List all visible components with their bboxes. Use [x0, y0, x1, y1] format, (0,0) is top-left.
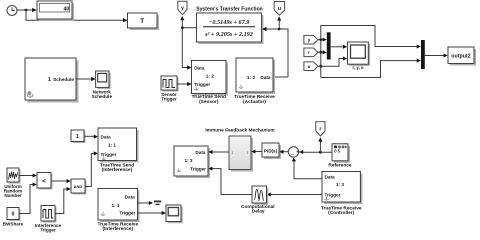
immune feedback subsystem	[229, 136, 253, 172]
svg-text:(Interference): (Interference)	[102, 167, 133, 173]
wire PID to immune	[251, 150, 261, 154]
svg-text:AND: AND	[74, 184, 83, 189]
from tag r	[304, 48, 318, 57]
uniform random number block	[4, 168, 22, 198]
wire actuator output to TF input and U tag	[262, 16, 288, 77]
svg-text:+: +	[296, 150, 299, 155]
constant 1 block	[71, 130, 86, 143]
sensor trigger pulse generator	[161, 76, 179, 102]
reference block	[328, 144, 352, 169]
svg-text:0 5: 0 5	[334, 149, 340, 154]
clock	[7, 6, 17, 16]
svg-text:BWShare: BWShare	[3, 222, 24, 227]
wire interference trigger to AND	[55, 187, 71, 214]
wire receive interference trigger to scope	[138, 211, 166, 215]
svg-text:Delay: Delay	[252, 209, 265, 215]
wire mux1 to scope input 1	[331, 45, 347, 49]
wire receive controller data to sum bottom	[292, 158, 322, 179]
svg-text:Schedule: Schedule	[53, 77, 74, 82]
wire y branch over scope to mux2	[319, 26, 421, 78]
svg-text:−: −	[291, 152, 294, 157]
wire clock to display	[17, 8, 36, 12]
svg-text:Trigger: Trigger	[40, 228, 56, 233]
svg-text:1: 3: 1: 3	[184, 158, 192, 163]
svg-text:Data: Data	[101, 135, 112, 140]
wire URN to relational	[19, 174, 37, 178]
wire mux2 to output2	[425, 54, 448, 58]
TrueTime Receive (Actuator) block	[234, 58, 275, 105]
svg-text:−0.5149s + 67.9: −0.5149s + 67.9	[209, 19, 250, 26]
scope r,y,u	[348, 42, 371, 70]
svg-text:Reference: Reference	[328, 163, 352, 169]
svg-text:(Controller): (Controller)	[328, 210, 355, 216]
network schedule scope	[92, 71, 113, 99]
BWShare constant block	[3, 208, 24, 227]
TrueTime Receive (Controller) block	[321, 172, 363, 217]
goto tag Y	[178, 1, 187, 14]
wire receive controller trigger to computational delay	[267, 193, 322, 197]
svg-text:PID(s): PID(s)	[264, 149, 278, 154]
wire reference to sum and r tag	[299, 137, 332, 154]
svg-text:Trigger: Trigger	[325, 193, 341, 198]
wire u tag to scope input 2	[318, 57, 347, 67]
svg-text:s² + 9.205s + 2.192: s² + 9.205s + 2.192	[204, 31, 253, 38]
TrueTime Send (Interference) block	[98, 128, 139, 173]
svg-text:Immune Feedback Mechanism: Immune Feedback Mechanism	[205, 128, 274, 134]
svg-text:1: 1	[48, 77, 51, 83]
wire sum to PID	[279, 150, 288, 154]
svg-text:1: 1: 1: 1	[111, 203, 119, 208]
AND logical operator block	[71, 179, 87, 195]
svg-text:T: T	[140, 18, 144, 25]
sum junction	[288, 147, 299, 158]
svg-text:r, y, u: r, y, u	[353, 65, 364, 70]
svg-text:u: u	[308, 64, 311, 69]
svg-text:u: u	[278, 6, 281, 12]
goto tag U	[274, 2, 284, 16]
wire relational to AND	[51, 179, 71, 183]
svg-text:output2: output2	[451, 54, 470, 60]
svg-text:1: 1: 1: 1	[108, 143, 116, 148]
output2 to-workspace block	[448, 47, 476, 66]
relational operator block <	[37, 173, 53, 190]
display block 40	[37, 1, 74, 21]
svg-text:Trigger: Trigger	[194, 82, 210, 87]
mux 1	[327, 32, 331, 59]
wire clock branch to T block	[26, 10, 127, 22]
svg-text:Trigger: Trigger	[190, 166, 206, 171]
svg-text:0: 0	[12, 212, 15, 218]
svg-text:(Interference): (Interference)	[102, 226, 133, 232]
computational delay block	[241, 186, 275, 215]
wire computational delay to send actuator trigger	[208, 167, 252, 195]
svg-text:(Actuator): (Actuator)	[243, 99, 266, 105]
wire u branch under scope to mux2	[319, 59, 421, 78]
wire constant 1 to send interference data	[84, 135, 98, 139]
svg-text:1: 1	[76, 134, 79, 140]
wire r tag to mux1	[318, 50, 327, 54]
svg-text:System's Transfer Function: System's Transfer Function	[196, 6, 263, 12]
svg-text:Data: Data	[194, 66, 205, 71]
svg-text:1: 3: 1: 3	[336, 182, 344, 187]
svg-text:Data: Data	[260, 75, 271, 80]
transfer function block	[197, 13, 264, 44]
TrueTime Send (Actuator) mirrored block	[174, 146, 210, 178]
terminator block	[154, 201, 161, 205]
PID controller block	[262, 143, 281, 159]
svg-text:40: 40	[64, 6, 70, 12]
wire BWShare to relational	[19, 183, 37, 214]
svg-text:y: y	[181, 6, 184, 12]
TrueTime Receive (Interference) block	[97, 189, 139, 233]
svg-text:Schedule: Schedule	[92, 94, 113, 99]
wire TF output to Y tag and sensor Data	[180, 16, 197, 70]
svg-text:1: 2: 1: 2	[206, 74, 214, 79]
svg-text:Data: Data	[325, 175, 336, 180]
svg-text:Trigger: Trigger	[101, 152, 117, 157]
svg-text:Trigger: Trigger	[161, 97, 177, 102]
svg-text:r: r	[308, 50, 310, 55]
interference scope	[166, 205, 183, 223]
from tag u	[304, 62, 318, 71]
svg-text:Number: Number	[4, 193, 22, 198]
wire AND to send interference trigger	[85, 151, 98, 186]
interference trigger pulse generator	[35, 206, 62, 233]
schedule subsystem	[25, 58, 79, 103]
wire immune to send actuator data	[208, 150, 229, 154]
wire schedule to network scope	[76, 77, 95, 81]
svg-text:1: 2: 1: 2	[247, 75, 255, 80]
svg-text:Data: Data	[125, 195, 136, 200]
TrueTime Send (Sensor) block	[192, 61, 229, 105]
svg-text:(Sensor): (Sensor)	[199, 99, 219, 105]
svg-text:r: r	[319, 127, 321, 133]
svg-text:y: y	[308, 38, 311, 43]
svg-text:<: <	[42, 178, 46, 185]
T block (to workspace)	[128, 13, 160, 30]
svg-text:Data: Data	[195, 150, 206, 155]
goto tag r	[316, 122, 325, 136]
svg-text:Trigger: Trigger	[119, 210, 135, 215]
wire receive interference data to terminator	[138, 201, 153, 205]
wire y tag to mux1	[318, 38, 327, 42]
from tag y	[304, 35, 318, 44]
wire sensor trigger to send trigger	[177, 82, 191, 86]
mux 2	[421, 40, 425, 69]
